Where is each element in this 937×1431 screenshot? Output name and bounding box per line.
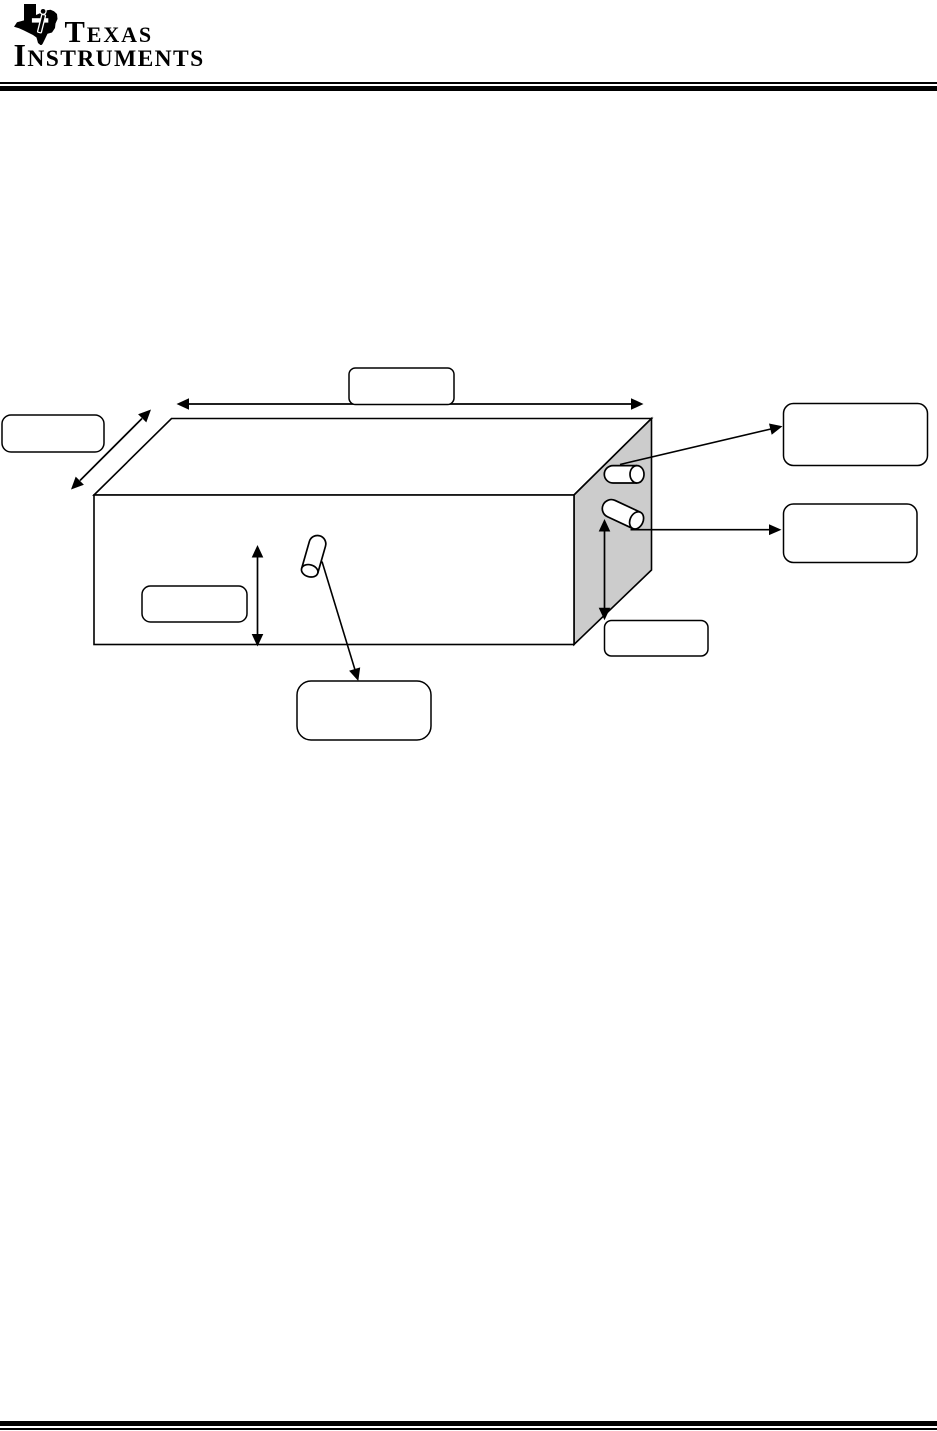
TI logo: Texas state glyph with ti <box>14 4 58 45</box>
leader arrow to bottom callout <box>322 562 360 682</box>
box top face <box>94 419 652 496</box>
wordmark INSTRUMENTS <box>14 39 205 72</box>
box right face (shaded) <box>574 419 652 645</box>
connector cylinder (upper, right face) <box>604 466 644 483</box>
footer rule thin <box>0 1428 937 1430</box>
connector cylinder (lower, right face) <box>599 497 646 532</box>
leader arrow to middle-right callout <box>631 524 782 535</box>
callout box on front face (height label) <box>142 586 247 622</box>
height dimension arrow (front face, double-headed) <box>252 545 264 647</box>
callout box upper right (connector label) <box>784 404 928 466</box>
box front face <box>94 495 574 645</box>
height dimension arrow (right face, double-headed) <box>599 519 611 620</box>
leader arrow to upper-right callout <box>620 424 783 465</box>
callout box lower right (height label) <box>605 621 709 657</box>
callout box middle right (connector label) <box>784 504 918 563</box>
callout box bottom (screw label) <box>297 681 431 740</box>
screw cylinder (front face) <box>300 533 328 578</box>
wordmark TEXAS <box>65 17 154 48</box>
header rule thick <box>0 86 937 91</box>
footer rule thick <box>0 1421 937 1426</box>
depth dimension arrow (top-left diagonal, double-headed) <box>71 410 151 490</box>
width dimension arrow (top, double-headed) <box>177 398 644 410</box>
header rule thin <box>0 82 937 84</box>
callout box top (width label) <box>349 368 454 405</box>
callout box left (depth label) <box>2 415 104 452</box>
